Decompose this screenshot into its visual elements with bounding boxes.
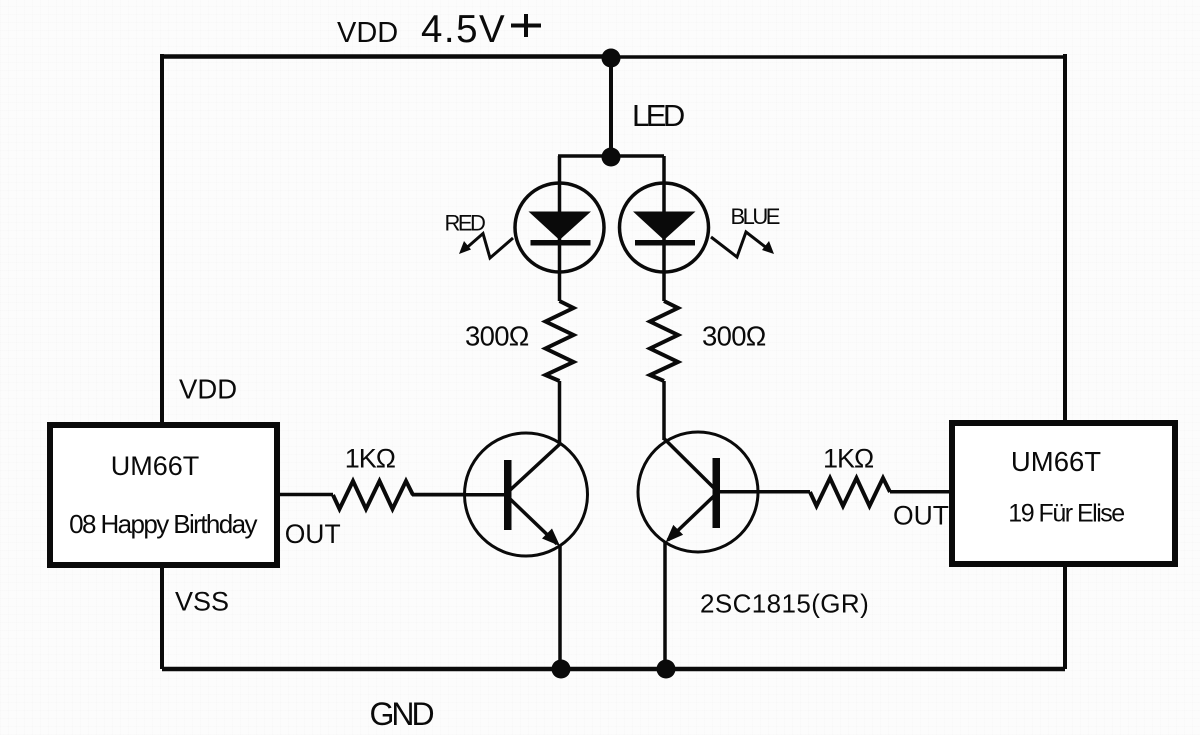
svg-text:1KΩ: 1KΩ <box>345 444 396 474</box>
svg-text:08 Happy Birthday: 08 Happy Birthday <box>69 509 257 539</box>
svg-text:1KΩ: 1KΩ <box>823 444 874 474</box>
svg-text:VDD: VDD <box>179 374 237 405</box>
svg-text:UM66T: UM66T <box>1011 446 1101 477</box>
svg-text:RED: RED <box>445 211 486 236</box>
svg-text:OUT: OUT <box>893 501 949 531</box>
svg-text:OUT: OUT <box>285 519 341 549</box>
svg-text:300Ω: 300Ω <box>465 321 529 352</box>
svg-text:4.5V: 4.5V <box>421 8 506 51</box>
svg-text:2SC1815(GR): 2SC1815(GR) <box>700 589 869 619</box>
svg-text:GND: GND <box>370 696 434 732</box>
svg-text:UM66T: UM66T <box>111 451 200 481</box>
svg-text:BLUE: BLUE <box>731 204 780 229</box>
svg-text:LED: LED <box>632 98 684 133</box>
svg-text:300Ω: 300Ω <box>702 321 766 352</box>
svg-text:VSS: VSS <box>175 587 229 617</box>
svg-text:19 Für Elise: 19 Für Elise <box>1008 500 1124 528</box>
svg-text:VDD: VDD <box>337 17 398 49</box>
